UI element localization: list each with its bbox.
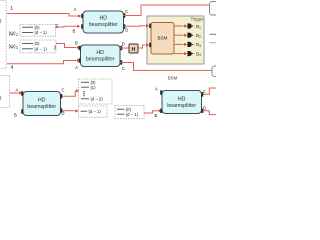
port B wedge BS1 (81, 24, 83, 28)
svg-text:|d − 1⟩: |d − 1⟩ (35, 30, 48, 35)
svg-text:BSM: BSM (168, 75, 178, 80)
svg-text:1: 1 (10, 6, 13, 12)
svg-text:beamsplitter: beamsplitter (89, 22, 118, 28)
arrowhead into BSM port 1 (146, 24, 149, 27)
output state box upper (|0>,|1>,...,|d-2>) (79, 79, 113, 104)
BSM input port 2 wedge (149, 43, 151, 47)
top right box (cut) (210, 2, 222, 16)
arrowhead into BSM port 2 (146, 43, 149, 46)
beamsplitter BS2 (75, 41, 125, 72)
port A wedge BS3 (21, 91, 23, 95)
svg-text:C: C (203, 89, 206, 94)
wire 4 (7, 61, 77, 64)
svg-text:D: D (122, 42, 125, 47)
BSM input port 1 wedge (149, 24, 151, 28)
classical line 2 from BSM assembly (210, 42, 217, 44)
source box S2 (lower left dashed, cut) (0, 76, 10, 108)
port A wedge BS1 (81, 14, 83, 18)
port C wedge BS3 (60, 94, 62, 98)
svg-text:D3: D3 (196, 42, 201, 48)
arrowhead into lower output box (75, 109, 78, 112)
svg-text:HD: HD (38, 97, 46, 103)
state prep box psi2 (20, 25, 56, 37)
wire BS4 C out (203, 88, 216, 94)
svg-text:B: B (75, 41, 78, 46)
svg-text:D4: D4 (196, 51, 201, 57)
BSM assembly box (tan) (147, 16, 204, 64)
svg-text:|d − 1⟩: |d − 1⟩ (126, 112, 139, 117)
wire BS1 C out to classical top (124, 5, 210, 16)
svg-text:B: B (73, 28, 76, 33)
svg-text:D1: D1 (196, 24, 201, 30)
svg-text:A: A (74, 7, 77, 12)
level line |d-1> (117, 113, 125, 115)
H gate box (129, 44, 138, 53)
level line |0> in psi2 (22, 26, 33, 28)
port D wedge BS4 (201, 109, 203, 113)
level line |d-2> (81, 98, 89, 100)
wire BS3 C to output state box (62, 91, 76, 97)
arrowhead into BS4 B (159, 109, 162, 112)
svg-text:C: C (122, 66, 125, 71)
svg-text:|0⟩: |0⟩ (35, 25, 41, 30)
wire 3 (56, 44, 77, 48)
arrowhead into output state box (76, 89, 79, 92)
wire into BS4 B (144, 111, 158, 113)
port B wedge BS2 (79, 46, 81, 50)
svg-text:|1⟩: |1⟩ (91, 85, 97, 90)
svg-text:|d − 1⟩: |d − 1⟩ (89, 109, 102, 114)
vertical dots (83, 91, 84, 92)
svg-text:beamsplitter: beamsplitter (167, 103, 196, 109)
svg-text:2: 2 (55, 24, 58, 30)
arrowhead wire 3 (77, 46, 80, 49)
detector D3 (188, 42, 202, 48)
detector D1 (188, 23, 202, 29)
wire BSM to detector D1 (174, 25, 184, 27)
wire H to BSM port 2 (138, 45, 145, 48)
wire BS2 C out to bottom right box (121, 63, 213, 71)
arrowhead wire 1 (78, 14, 81, 17)
level line |d-1> in psi2 (22, 32, 33, 34)
svg-text:A: A (16, 88, 19, 93)
level line |1> (81, 86, 89, 88)
svg-text:0⟩: 0⟩ (0, 18, 2, 24)
port C wedge BS2 (120, 60, 122, 64)
source box S1 (tall dashed box, cut at left edge) (0, 1, 6, 69)
svg-text:HD: HD (96, 50, 104, 56)
bottom right box (cut) (212, 66, 224, 77)
svg-text:beamsplitter: beamsplitter (86, 57, 115, 63)
svg-text:|d − 1⟩: |d − 1⟩ (35, 47, 48, 52)
svg-text:C: C (62, 88, 65, 93)
beamsplitter BS1 (73, 7, 129, 33)
level line |d-1> (81, 110, 88, 112)
wire BS3 D to output state box lower (62, 110, 75, 112)
svg-text:D: D (203, 106, 206, 111)
svg-text:H: H (132, 47, 136, 53)
svg-text:HD: HD (99, 16, 107, 22)
svg-text:B: B (155, 113, 158, 118)
BSM box (149, 23, 174, 55)
svg-text:3: 3 (54, 46, 57, 52)
level line |0> in psi3 (22, 43, 33, 45)
svg-text:0⟩: 0⟩ (0, 96, 2, 102)
svg-text:HD: HD (178, 96, 186, 102)
arrowhead wire 4 (77, 59, 80, 62)
classical line 1 from BSM assembly (210, 33, 217, 35)
wire into BS3 A (10, 92, 19, 94)
wire BS1 D to BSM port 1 (124, 25, 145, 28)
port A wedge BS2 (79, 58, 81, 62)
state prep box psi3 (20, 40, 56, 53)
svg-text:4: 4 (11, 65, 14, 71)
wire BS2 D to H (121, 47, 130, 49)
level line |0> (81, 81, 89, 83)
port D wedge BS1 (123, 24, 125, 28)
svg-text:beamsplitter: beamsplitter (27, 104, 56, 110)
svg-text:|0⟩: |0⟩ (35, 41, 41, 46)
port B wedge BS4 (160, 109, 162, 113)
detector D4 (188, 51, 202, 57)
output state box lower (|d-1>) (79, 106, 108, 117)
port D wedge BS3 (60, 108, 62, 112)
svg-text:|d − 2⟩: |d − 2⟩ (91, 97, 104, 102)
svg-text:D2: D2 (196, 33, 201, 39)
svg-text:A: A (155, 86, 158, 91)
svg-text:C: C (125, 9, 128, 14)
arrowhead into BS3 A (19, 91, 22, 94)
svg-text:D: D (125, 28, 128, 33)
svg-text:Trigger: Trigger (191, 17, 204, 22)
beamsplitter BS4 (155, 86, 207, 118)
port B wedge BS3 (21, 109, 23, 113)
wire 2 (56, 25, 77, 28)
svg-text:A: A (75, 65, 78, 70)
wire BSM to detector D4 (174, 53, 184, 55)
wire 1 (7, 14, 78, 17)
wire BSM to detector D3 (174, 43, 184, 45)
port C wedge BS1 (123, 13, 125, 17)
input state box BS4 (|0>,|d-1>) (115, 106, 144, 119)
wire BSM to detector D2 (174, 34, 184, 36)
port C wedge BS4 (201, 92, 203, 96)
svg-text:BSM: BSM (158, 36, 168, 41)
wire BS4 D out (203, 111, 216, 115)
beamsplitter BS3 (14, 88, 65, 118)
port A wedge BS4 (160, 90, 162, 94)
port D wedge BS2 (120, 46, 122, 50)
level line |0> (117, 108, 125, 110)
detector D2 (188, 33, 202, 39)
arrowhead wire 2 (77, 25, 80, 28)
svg-text:B: B (14, 113, 17, 118)
level line |d-1> in psi3 (22, 48, 33, 50)
